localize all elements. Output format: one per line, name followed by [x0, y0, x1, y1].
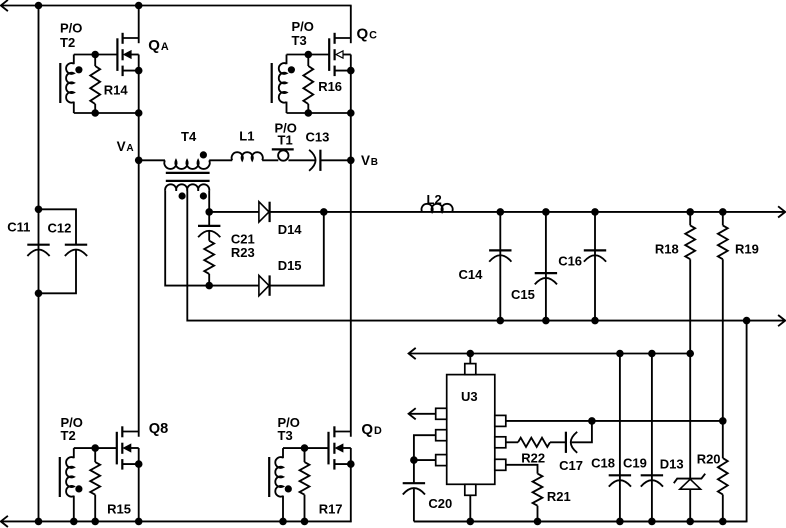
node C18 top junction: [616, 350, 624, 358]
svg-text:R19: R19: [735, 241, 759, 256]
wire Q8 drain from VA: [138, 160, 140, 436]
label C11: [7, 220, 30, 235]
wire T3 bottom-cell bottom terminal: [282, 496, 284, 522]
transformer winding P/O T2 (top) core bar: [59, 63, 61, 103]
U3 pin left 1: [436, 408, 447, 419]
svg-text:L1: L1: [239, 129, 254, 144]
wire QC gate line: [287, 54, 330, 56]
svg-text:C19: C19: [623, 456, 647, 471]
svg-text:C17: C17: [559, 458, 583, 473]
node D14 anode junction: [205, 208, 213, 216]
label QA: [148, 37, 169, 54]
U3 pin top: [465, 364, 476, 375]
label R21: [547, 489, 571, 504]
svg-text:R17: R17: [319, 502, 343, 517]
svg-text:C14: C14: [459, 267, 484, 282]
node C11 top junction: [35, 206, 43, 214]
diode D14: [259, 202, 270, 222]
svg-text:T3: T3: [292, 33, 307, 48]
node R17 / rail junction: [301, 518, 309, 526]
wire C12 top branch: [39, 209, 77, 245]
wire QA drain from top rail: [138, 6, 140, 44]
transformer winding P/O T3 (bottom) core bar: [268, 457, 270, 497]
capacitor C20: [403, 483, 425, 494]
svg-text:V: V: [117, 139, 126, 154]
label R20: [697, 452, 721, 467]
wire T4 secondary left terminal down: [165, 191, 209, 286]
node VA: [135, 157, 143, 165]
label U3: [461, 389, 478, 404]
transistor QD: [329, 426, 355, 469]
wire C20 top lead: [413, 460, 415, 483]
wire T3 bottom-cell top terminal: [282, 448, 284, 458]
resistor R15: [90, 448, 100, 521]
svg-text:D14: D14: [278, 222, 303, 237]
op-amp U3 body: [447, 375, 495, 485]
wire U3 right pin2 lead: [506, 441, 518, 443]
node R14 bottom junction: [91, 109, 99, 117]
inductor L1: [232, 152, 263, 160]
node C15 top junction: [542, 208, 550, 216]
capacitor C11: [27, 245, 49, 256]
node return rail to ground-link junction: [743, 317, 751, 325]
svg-text:D: D: [374, 425, 382, 437]
wire D15 anode: [209, 285, 259, 287]
capacitor C15: [535, 273, 557, 284]
arrow U3 left pin1: [409, 408, 416, 419]
svg-text:T3: T3: [278, 428, 293, 443]
wire output rail: [324, 211, 785, 213]
label D13: [660, 457, 684, 472]
node R21 / rail junction: [534, 518, 542, 526]
svg-text:T4: T4: [181, 129, 197, 144]
svg-text:C20: C20: [428, 496, 452, 511]
svg-text:C16: C16: [558, 254, 582, 269]
wire C15 branch: [545, 212, 547, 321]
transformer winding P/O T3 (top) coil: [279, 63, 287, 102]
transistor QC: [329, 33, 354, 76]
capacitor C14: [489, 250, 511, 261]
U3 pin left 3: [436, 455, 447, 466]
resistor R23: [204, 241, 214, 274]
svg-text:Q8: Q8: [149, 421, 168, 437]
svg-text:R21: R21: [547, 489, 571, 504]
label C20: [428, 496, 452, 511]
node C17 top junction: [588, 417, 596, 425]
wire QA cell bottom: [74, 112, 139, 114]
svg-text:Q: Q: [357, 26, 369, 43]
svg-text:P/O: P/O: [60, 21, 82, 36]
label C21: [231, 232, 255, 247]
label R15: [107, 501, 131, 516]
node C16 bottom junction: [591, 317, 599, 325]
svg-text:V: V: [361, 153, 370, 168]
label VB: [361, 153, 378, 168]
wire QA gate line: [74, 54, 118, 56]
wire T4 primary to L1: [209, 159, 232, 161]
svg-text:C: C: [369, 30, 377, 42]
svg-text:R20: R20: [697, 452, 721, 467]
label R14: [104, 83, 129, 98]
wire T1 to C13: [288, 159, 315, 161]
wire U3 bottom pin lead: [469, 495, 471, 521]
svg-text:U3: U3: [461, 389, 478, 404]
arrow bottom-left return: [1, 516, 8, 527]
svg-text:P/O: P/O: [292, 19, 314, 34]
transformer winding P/O T3 (bottom) coil: [275, 457, 283, 497]
wire U3 top pin lead: [469, 354, 471, 365]
wire C16 branch: [594, 212, 596, 321]
wire D14 anode: [209, 211, 259, 213]
node Q8 gate / R15 junction: [91, 444, 99, 452]
transformer T4 primary winding: [164, 160, 209, 169]
svg-text:L2: L2: [427, 192, 442, 207]
label C12: [48, 221, 72, 236]
node T2 winding / rail junction: [70, 518, 78, 526]
diode D15: [259, 275, 270, 295]
svg-text:R14: R14: [104, 83, 129, 98]
svg-text:Q: Q: [361, 421, 373, 438]
node QA cell bottom / source junction: [135, 109, 143, 117]
svg-text:R16: R16: [318, 79, 342, 94]
wire U3 right pin1 line: [506, 420, 723, 422]
label D15: [278, 258, 302, 273]
node C16 top junction: [591, 208, 599, 216]
transformer winding P/O T2 (bottom) core bar: [59, 457, 61, 497]
node R18 / D13 junction: [686, 350, 694, 358]
label C15: [511, 287, 535, 302]
wire T4 center tap to return rail: [187, 191, 785, 321]
node T2 phase dot (bottom cell): [75, 485, 82, 492]
U3 pin right 3: [495, 459, 506, 470]
label R18: [655, 241, 679, 256]
svg-text:C13: C13: [306, 130, 330, 145]
label C19: [623, 456, 647, 471]
node QC gate / R16 junction: [305, 51, 313, 59]
arrow top-left output: [1, 0, 8, 11]
transistor Q8: [117, 426, 143, 469]
wire L1 to T1: [262, 159, 278, 161]
svg-text:C11: C11: [7, 220, 30, 235]
resistor R22: [518, 438, 550, 447]
node R15 / rail junction: [91, 518, 99, 526]
svg-text:B: B: [371, 157, 378, 168]
label QD: [361, 421, 382, 438]
wire C21 top lead: [208, 212, 210, 226]
wire C18 branch: [619, 354, 621, 522]
capacitor C21: [198, 226, 220, 237]
label P/O (QD cell): [278, 415, 300, 430]
transformer T4 core: [166, 173, 210, 181]
node R19 top junction: [719, 208, 727, 216]
label QC: [357, 26, 378, 43]
wire R23 bottom lead: [208, 274, 210, 286]
wire QC cell bottom: [287, 112, 351, 114]
label P/O (Q8 cell): [61, 415, 83, 430]
node T2 phase dot (top cell): [75, 66, 82, 73]
node R20 / rail junction: [719, 518, 727, 526]
capacitor C18: [609, 475, 631, 486]
svg-text:D15: D15: [278, 258, 302, 273]
node C14 top junction: [497, 208, 505, 216]
resistor R19: [718, 212, 728, 421]
diode D13 (zener): [674, 474, 705, 490]
node D13 / rail junction: [686, 518, 694, 526]
label R23: [231, 245, 255, 260]
U3 pin right 1: [495, 415, 506, 426]
wire left rail vertical: [38, 6, 40, 522]
label C16: [558, 254, 582, 269]
label R17: [319, 502, 343, 517]
wire Q8 source to bottom rail: [138, 464, 140, 521]
wire T2 bottom-cell bottom terminal: [73, 496, 75, 522]
wire top rail: [1, 5, 352, 7]
resistor R20: [718, 421, 728, 522]
node C18 bottom junction: [616, 518, 624, 526]
node R16 bottom junction: [305, 109, 313, 117]
wire T2 top terminal: [73, 55, 75, 65]
node U3 left pin2/pin3 junction: [410, 456, 418, 464]
label P/O (T1): [275, 120, 297, 135]
arrow output return (right): [778, 315, 785, 326]
wire D15 cathode up to output junction: [270, 212, 324, 286]
label T1 (T1): [278, 133, 293, 148]
wire bottom-left rail: [1, 520, 352, 522]
label L1: [239, 129, 254, 144]
label T3 (QD cell): [278, 428, 293, 443]
label VA: [117, 139, 134, 154]
svg-text:C12: C12: [48, 221, 72, 236]
node T3 winding / rail junction: [279, 518, 287, 526]
wire C19 branch: [651, 354, 653, 522]
wire T3 top terminal: [286, 55, 288, 65]
node top rail / left rail junction: [35, 2, 43, 10]
node Q8 source / rail junction: [135, 518, 143, 526]
label L2: [427, 192, 442, 207]
wire C20 to bottom rail: [413, 488, 415, 521]
wire U3 supply line: [409, 353, 691, 355]
label P/O (QA cell): [60, 21, 82, 36]
svg-text:T2: T2: [60, 35, 75, 50]
transistor QA: [117, 33, 142, 76]
wire U3 right pin3 branch: [506, 465, 538, 474]
label P/O (QC cell): [292, 19, 314, 34]
svg-text:R18: R18: [655, 241, 679, 256]
node QC cell bottom / source junction: [347, 109, 355, 117]
node C11 bottom junction: [35, 290, 43, 298]
label C14: [459, 267, 484, 282]
capacitor C16: [584, 250, 606, 261]
label R19: [735, 241, 759, 256]
transformer winding P/O T1 single turn: [278, 150, 288, 160]
node bottom rail / left rail junction: [35, 518, 43, 526]
resistor R21: [533, 474, 543, 522]
wire VA to T4 primary: [139, 159, 165, 161]
wire QD drain from VB: [350, 160, 352, 436]
arrow output rail (right): [778, 206, 785, 217]
capacitor C17: [566, 432, 577, 453]
wire T4 secondary right terminal down: [208, 191, 210, 212]
node QD gate / R17 junction: [301, 444, 309, 452]
wire QC source to node VB: [350, 71, 352, 161]
label C17: [559, 458, 583, 473]
wire C14 branch: [499, 212, 501, 321]
svg-text:R15: R15: [107, 501, 131, 516]
resistor R18: [685, 212, 695, 354]
wire QD source to bottom rail: [350, 464, 352, 522]
node R18 top junction: [686, 208, 694, 216]
wire QD gate line: [283, 447, 329, 449]
resistor R16: [303, 55, 313, 114]
node T4 secondary phase dot (right half): [200, 192, 207, 199]
wire Q8 gate line: [74, 447, 117, 449]
transformer T1 core bar: [272, 148, 294, 150]
node D15 anode junction: [205, 282, 213, 290]
resistor R14: [90, 55, 100, 114]
capacitor C19: [641, 475, 663, 486]
node U3 bottom pin / rail junction: [467, 518, 475, 526]
U3 pin bottom: [465, 484, 476, 495]
arrow U3 supply (left): [409, 348, 416, 359]
svg-text:R23: R23: [231, 245, 255, 260]
node C15 bottom junction: [542, 317, 550, 325]
wire C12 bottom branch: [39, 250, 77, 294]
label T3 (QC cell): [292, 33, 307, 48]
resistor R17: [300, 448, 310, 521]
svg-text:T1: T1: [278, 133, 293, 148]
label C18: [591, 456, 615, 471]
wire R22 to C17: [550, 441, 566, 443]
transformer winding P/O T2 (top) coil: [66, 63, 74, 103]
U3 pin left 2: [436, 430, 447, 441]
svg-text:D13: D13: [660, 457, 684, 472]
node QA gate / R14 junction: [91, 51, 99, 59]
svg-text:A: A: [126, 143, 133, 154]
capacitor C12: [65, 245, 87, 256]
node D14/D15 output junction: [320, 208, 328, 216]
transformer T4 secondary winding: [165, 184, 209, 191]
wire U3 left pin1 lead: [410, 413, 436, 415]
svg-text:R22: R22: [521, 451, 545, 466]
wire C21 to R23: [208, 231, 210, 241]
node T4 secondary phase dot (left half): [179, 192, 186, 199]
wire T2 bottom-cell top terminal: [73, 448, 75, 458]
label Q8: [149, 421, 168, 437]
node top rail / QA drain junction: [135, 2, 143, 10]
wire return to bottom rail (right edge): [414, 321, 747, 522]
node U3 supply pin junction: [467, 350, 475, 358]
label T2 (QA cell): [60, 35, 75, 50]
svg-text:Q: Q: [148, 37, 160, 54]
wire T2 bottom terminal: [73, 102, 75, 113]
wire T3 bottom terminal: [286, 102, 288, 113]
node T3 phase dot (top cell): [288, 66, 295, 73]
svg-text:C18: C18: [591, 456, 615, 471]
transformer winding P/O T2 (bottom) coil: [66, 457, 74, 496]
svg-text:A: A: [161, 41, 169, 53]
node VB: [347, 157, 355, 165]
svg-text:C15: C15: [511, 287, 535, 302]
wire U3 left pin2 branch: [414, 435, 436, 460]
wire bottom-right rail: [414, 520, 747, 522]
wire U3 left pin3 lead: [414, 459, 436, 461]
label R16: [318, 79, 342, 94]
wire C17 to pin1 line: [572, 421, 592, 442]
node T4 primary phase dot: [200, 151, 207, 158]
node C19 bottom junction: [648, 518, 656, 526]
svg-text:T2: T2: [61, 428, 76, 443]
wire QA source to node VA: [138, 71, 140, 161]
wire D13 anode lead: [689, 489, 691, 521]
label T4: [181, 129, 197, 144]
node C19 top junction: [648, 350, 656, 358]
wire top rail corner to QC drain: [350, 6, 352, 44]
wire D14 cathode to output rail: [270, 211, 324, 213]
capacitor C13: [309, 150, 320, 171]
node C14 bottom junction: [497, 317, 505, 325]
label R22: [521, 451, 545, 466]
wire C13 to VB: [320, 159, 350, 161]
label C13: [306, 130, 330, 145]
wire D13 cathode lead: [689, 354, 691, 479]
label D14: [278, 222, 303, 237]
label T2 (Q8 cell): [61, 428, 76, 443]
U3 pin right 2: [495, 437, 506, 448]
inductor L2: [422, 204, 453, 212]
node R19/R20 divider junction: [719, 417, 727, 425]
node T3 phase dot (bottom cell): [285, 485, 292, 492]
transformer winding P/O T3 (top) core bar: [271, 63, 273, 103]
